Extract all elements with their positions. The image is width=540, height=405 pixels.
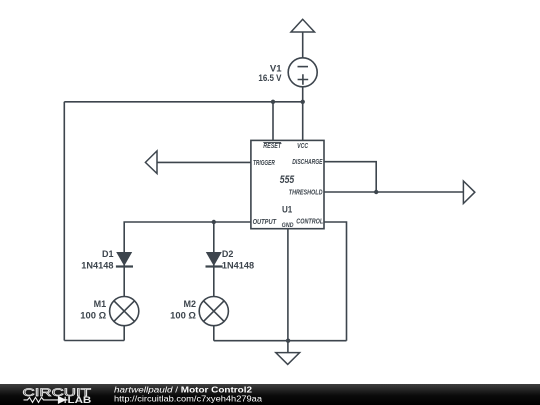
power flag arrow (top): [291, 19, 315, 32]
diode D1 leads: [123, 264, 125, 297]
node flag arrow right: [463, 181, 474, 204]
wire D2 drop: [213, 222, 215, 252]
node junction THRESHOLD-DISCHARGE: [374, 190, 378, 194]
diode D2: [206, 252, 222, 266]
node junction GND: [286, 339, 290, 343]
node flag arrow left: [145, 151, 157, 174]
wire V1 top stem: [302, 32, 304, 58]
wire bottom rail: [214, 340, 347, 342]
wire OUTPUT: [124, 222, 251, 252]
V1 minus sign: [298, 66, 309, 68]
wire DISCHARGE: [324, 162, 376, 192]
logo resistor zigzag: [24, 397, 59, 402]
wire THRESHOLD: [324, 191, 463, 193]
svg-text:http://circuitlab.com/c7xyeh4h: http://circuitlab.com/c7xyeh4h279aa: [114, 394, 262, 404]
wire VCC drop: [302, 102, 304, 141]
svg-text:LAB: LAB: [68, 395, 92, 405]
motor M2 circle: [199, 297, 228, 326]
node junction top-V1: [301, 100, 305, 104]
voltage source V1 circle: [288, 58, 317, 87]
wire left rail: [63, 102, 65, 341]
wire GND drop: [287, 229, 289, 353]
motor M1 circle: [110, 297, 139, 326]
wire CONTROL: [324, 222, 347, 341]
footer bar: [0, 384, 540, 405]
node junction OUTPUT-D2: [212, 220, 216, 224]
diode D2 leads: [213, 264, 215, 297]
ground symbol: [276, 353, 300, 365]
op-amp U1 555 box: [251, 140, 324, 228]
wire V1 bottom stem: [302, 87, 304, 102]
wire RESET drop: [272, 102, 274, 141]
wire M1 bottom rail: [64, 340, 124, 342]
logo diode symbol: [59, 397, 68, 403]
V1 plus sign: [298, 74, 309, 85]
wire M1 bottom: [123, 326, 125, 341]
wire top rail: [64, 101, 302, 103]
wire M2 bottom: [213, 326, 215, 341]
node junction top-RESET: [271, 100, 275, 104]
diode D1: [116, 252, 132, 266]
wire TRIGGER: [157, 161, 251, 163]
